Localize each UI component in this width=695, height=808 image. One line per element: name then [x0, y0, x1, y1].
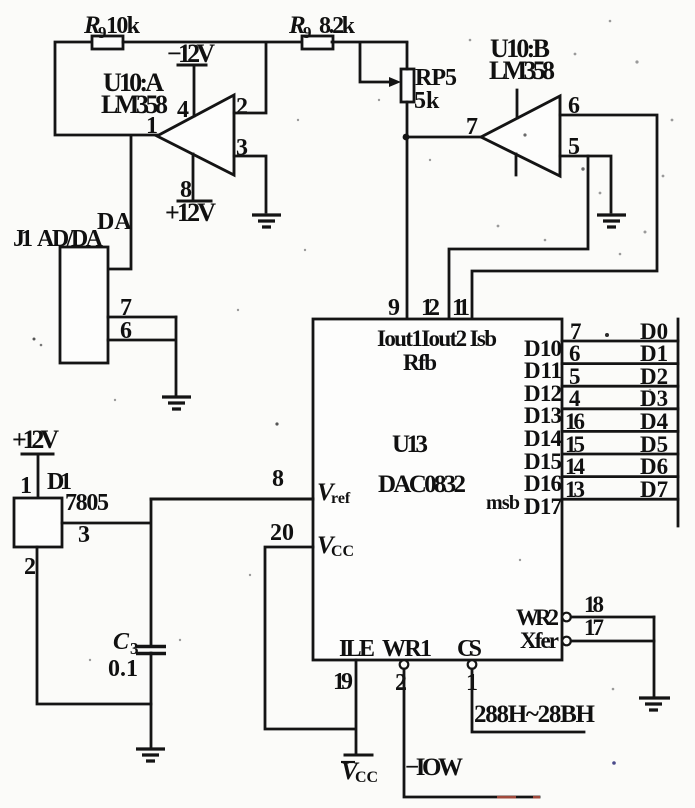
svg-text:WR1: WR1 — [382, 636, 432, 662]
svg-text:5k: 5k — [414, 88, 440, 114]
svg-text:0.1: 0.1 — [108, 656, 138, 682]
resistor R9 10k — [83, 12, 141, 49]
wire top right to RP5 column — [332, 41, 407, 44]
svg-text:2: 2 — [236, 94, 248, 120]
wire DAC pin 20 Vcc — [265, 520, 355, 729]
svg-text:WR2: WR2 — [516, 605, 559, 630]
wire op-amp B pin 6 feedback to DAC pin 11 — [472, 115, 657, 319]
DAC pin 1 CS bubble and wire to address label — [466, 660, 596, 732]
svg-text:AD/DA: AD/DA — [37, 226, 104, 252]
svg-text:J1: J1 — [13, 226, 33, 252]
svg-text:16: 16 — [565, 409, 585, 434]
DAC pin 19 ILE to Vcc bar — [333, 660, 378, 786]
op-amp U10:B — [466, 34, 580, 176]
wire D1 pin 2 down and bottom rail — [37, 547, 151, 704]
ground under J1 — [162, 397, 191, 409]
node pin 12 label — [421, 295, 440, 321]
svg-text:D13: D13 — [524, 403, 562, 428]
potentiometer RP5 5k — [360, 43, 457, 114]
svg-text:+12V: +12V — [165, 198, 216, 227]
svg-text:D14: D14 — [524, 426, 563, 451]
resistor R9 8.2k — [288, 12, 356, 49]
svg-text:D1: D1 — [640, 341, 668, 366]
svg-text:10k: 10k — [106, 13, 141, 39]
svg-text:14: 14 — [565, 454, 586, 479]
ground under C3 — [136, 749, 165, 761]
DAC pin 2 WR1 bubble and wire to -IOW — [395, 660, 539, 797]
svg-text:D16: D16 — [524, 471, 562, 496]
svg-text:Rfb: Rfb — [403, 350, 437, 375]
svg-text:12: 12 — [421, 295, 440, 321]
svg-text:19: 19 — [333, 669, 353, 695]
bus pin number labels 7 6 5 4 16 15 14 13 — [565, 319, 586, 502]
wire op-amp B pin 5 to ground — [560, 156, 611, 212]
regulator D1 7805 — [14, 469, 109, 580]
wire D1 pin 3 to Vref node — [62, 499, 151, 646]
wire DAC pin 8 Vref — [151, 466, 313, 499]
power +12V to op-amp A pin 8 — [165, 154, 216, 227]
power +12V above D1 — [12, 425, 59, 498]
wire node DA from op-amp A output to J1 — [97, 136, 132, 269]
IC U13 DAC0832 — [313, 319, 562, 662]
svg-text:4: 4 — [569, 386, 581, 411]
DAC pin 18 WR2 bubble and wire — [562, 592, 654, 621]
svg-text:17: 17 — [584, 615, 604, 640]
wire WR2/Xfer to ground — [653, 617, 656, 696]
svg-text:18: 18 — [584, 592, 604, 617]
svg-text:U13: U13 — [392, 431, 428, 458]
svg-text:6: 6 — [120, 318, 132, 344]
svg-text:9: 9 — [388, 295, 400, 321]
svg-text:Xfer: Xfer — [520, 628, 559, 653]
wire J1 pin 7 — [108, 295, 176, 321]
svg-text:288H~28BH: 288H~28BH — [474, 701, 596, 728]
svg-text:msb: msb — [486, 492, 520, 514]
svg-text:D4: D4 — [640, 409, 669, 434]
wire red-tinted segment of -IOW rail (scan artifact) — [497, 796, 540, 799]
svg-text:8: 8 — [272, 466, 284, 492]
svg-text:D11: D11 — [524, 358, 562, 383]
wire feedback loop left — [55, 42, 157, 135]
svg-text:D17: D17 — [524, 494, 562, 519]
svg-text:1: 1 — [146, 113, 158, 139]
connector J1 AD/DA — [13, 226, 108, 363]
capacitor C3 0.1 — [108, 629, 166, 682]
wire op-amp B output pin 7 — [407, 136, 481, 139]
svg-text:1: 1 — [20, 473, 32, 499]
svg-text:+12V: +12V — [12, 425, 59, 454]
svg-text:LM358: LM358 — [489, 56, 555, 85]
bus net labels D0..D7 — [640, 319, 669, 502]
wire op-amp B pin 5 branch to DAC pin 12 — [449, 156, 588, 319]
ground under op-amp B pin 5 — [597, 215, 626, 227]
DI0..DI7 labels inside chip — [524, 336, 563, 519]
svg-text:4: 4 — [177, 97, 189, 123]
svg-text:CC: CC — [331, 543, 354, 560]
svg-text:C: C — [113, 629, 130, 655]
node pin 9 label — [388, 295, 400, 321]
wire op-amp A pin 2 to top — [234, 44, 266, 113]
svg-text:DAC0832: DAC0832 — [378, 471, 466, 498]
svg-text:6: 6 — [569, 341, 581, 366]
svg-text:Iout1Iout2 Isb: Iout1Iout2 Isb — [377, 326, 497, 351]
svg-text:CC: CC — [355, 769, 378, 786]
svg-text:−IOW: −IOW — [405, 754, 463, 781]
svg-text:7805: 7805 — [65, 490, 109, 516]
svg-text:ILE: ILE — [339, 636, 375, 662]
svg-text:D3: D3 — [640, 386, 668, 411]
ground under op-amp A pin 3 — [252, 215, 281, 227]
power -12V to op-amp A pin 4 — [167, 39, 215, 116]
DAC pin 17 Xfer bubble and wire — [562, 615, 654, 645]
wire top between resistors — [123, 41, 302, 44]
svg-text:8.2k: 8.2k — [319, 13, 356, 39]
svg-text:CS: CS — [457, 636, 482, 662]
op-amp U10:A — [101, 68, 248, 203]
node pin 11 label — [452, 295, 470, 321]
svg-text:D6: D6 — [640, 454, 668, 479]
wire capacitor to ground — [150, 653, 153, 747]
wire J1 pin 6 to ground — [108, 317, 176, 395]
data bus rows D0..D7 — [562, 319, 678, 526]
svg-text:20: 20 — [270, 520, 294, 546]
svg-text:D7: D7 — [640, 477, 668, 502]
svg-text:13: 13 — [565, 477, 585, 502]
svg-text:ref: ref — [331, 490, 351, 507]
svg-text:11: 11 — [452, 295, 470, 321]
wire op-amp A pin 3 to ground — [234, 156, 266, 212]
svg-text:9: 9 — [303, 23, 312, 42]
svg-text:2: 2 — [24, 554, 36, 580]
wire main vertical to DAC pin 9 — [403, 43, 410, 319]
ground under WR2/Xfer — [639, 698, 670, 710]
svg-text:3: 3 — [78, 522, 90, 548]
